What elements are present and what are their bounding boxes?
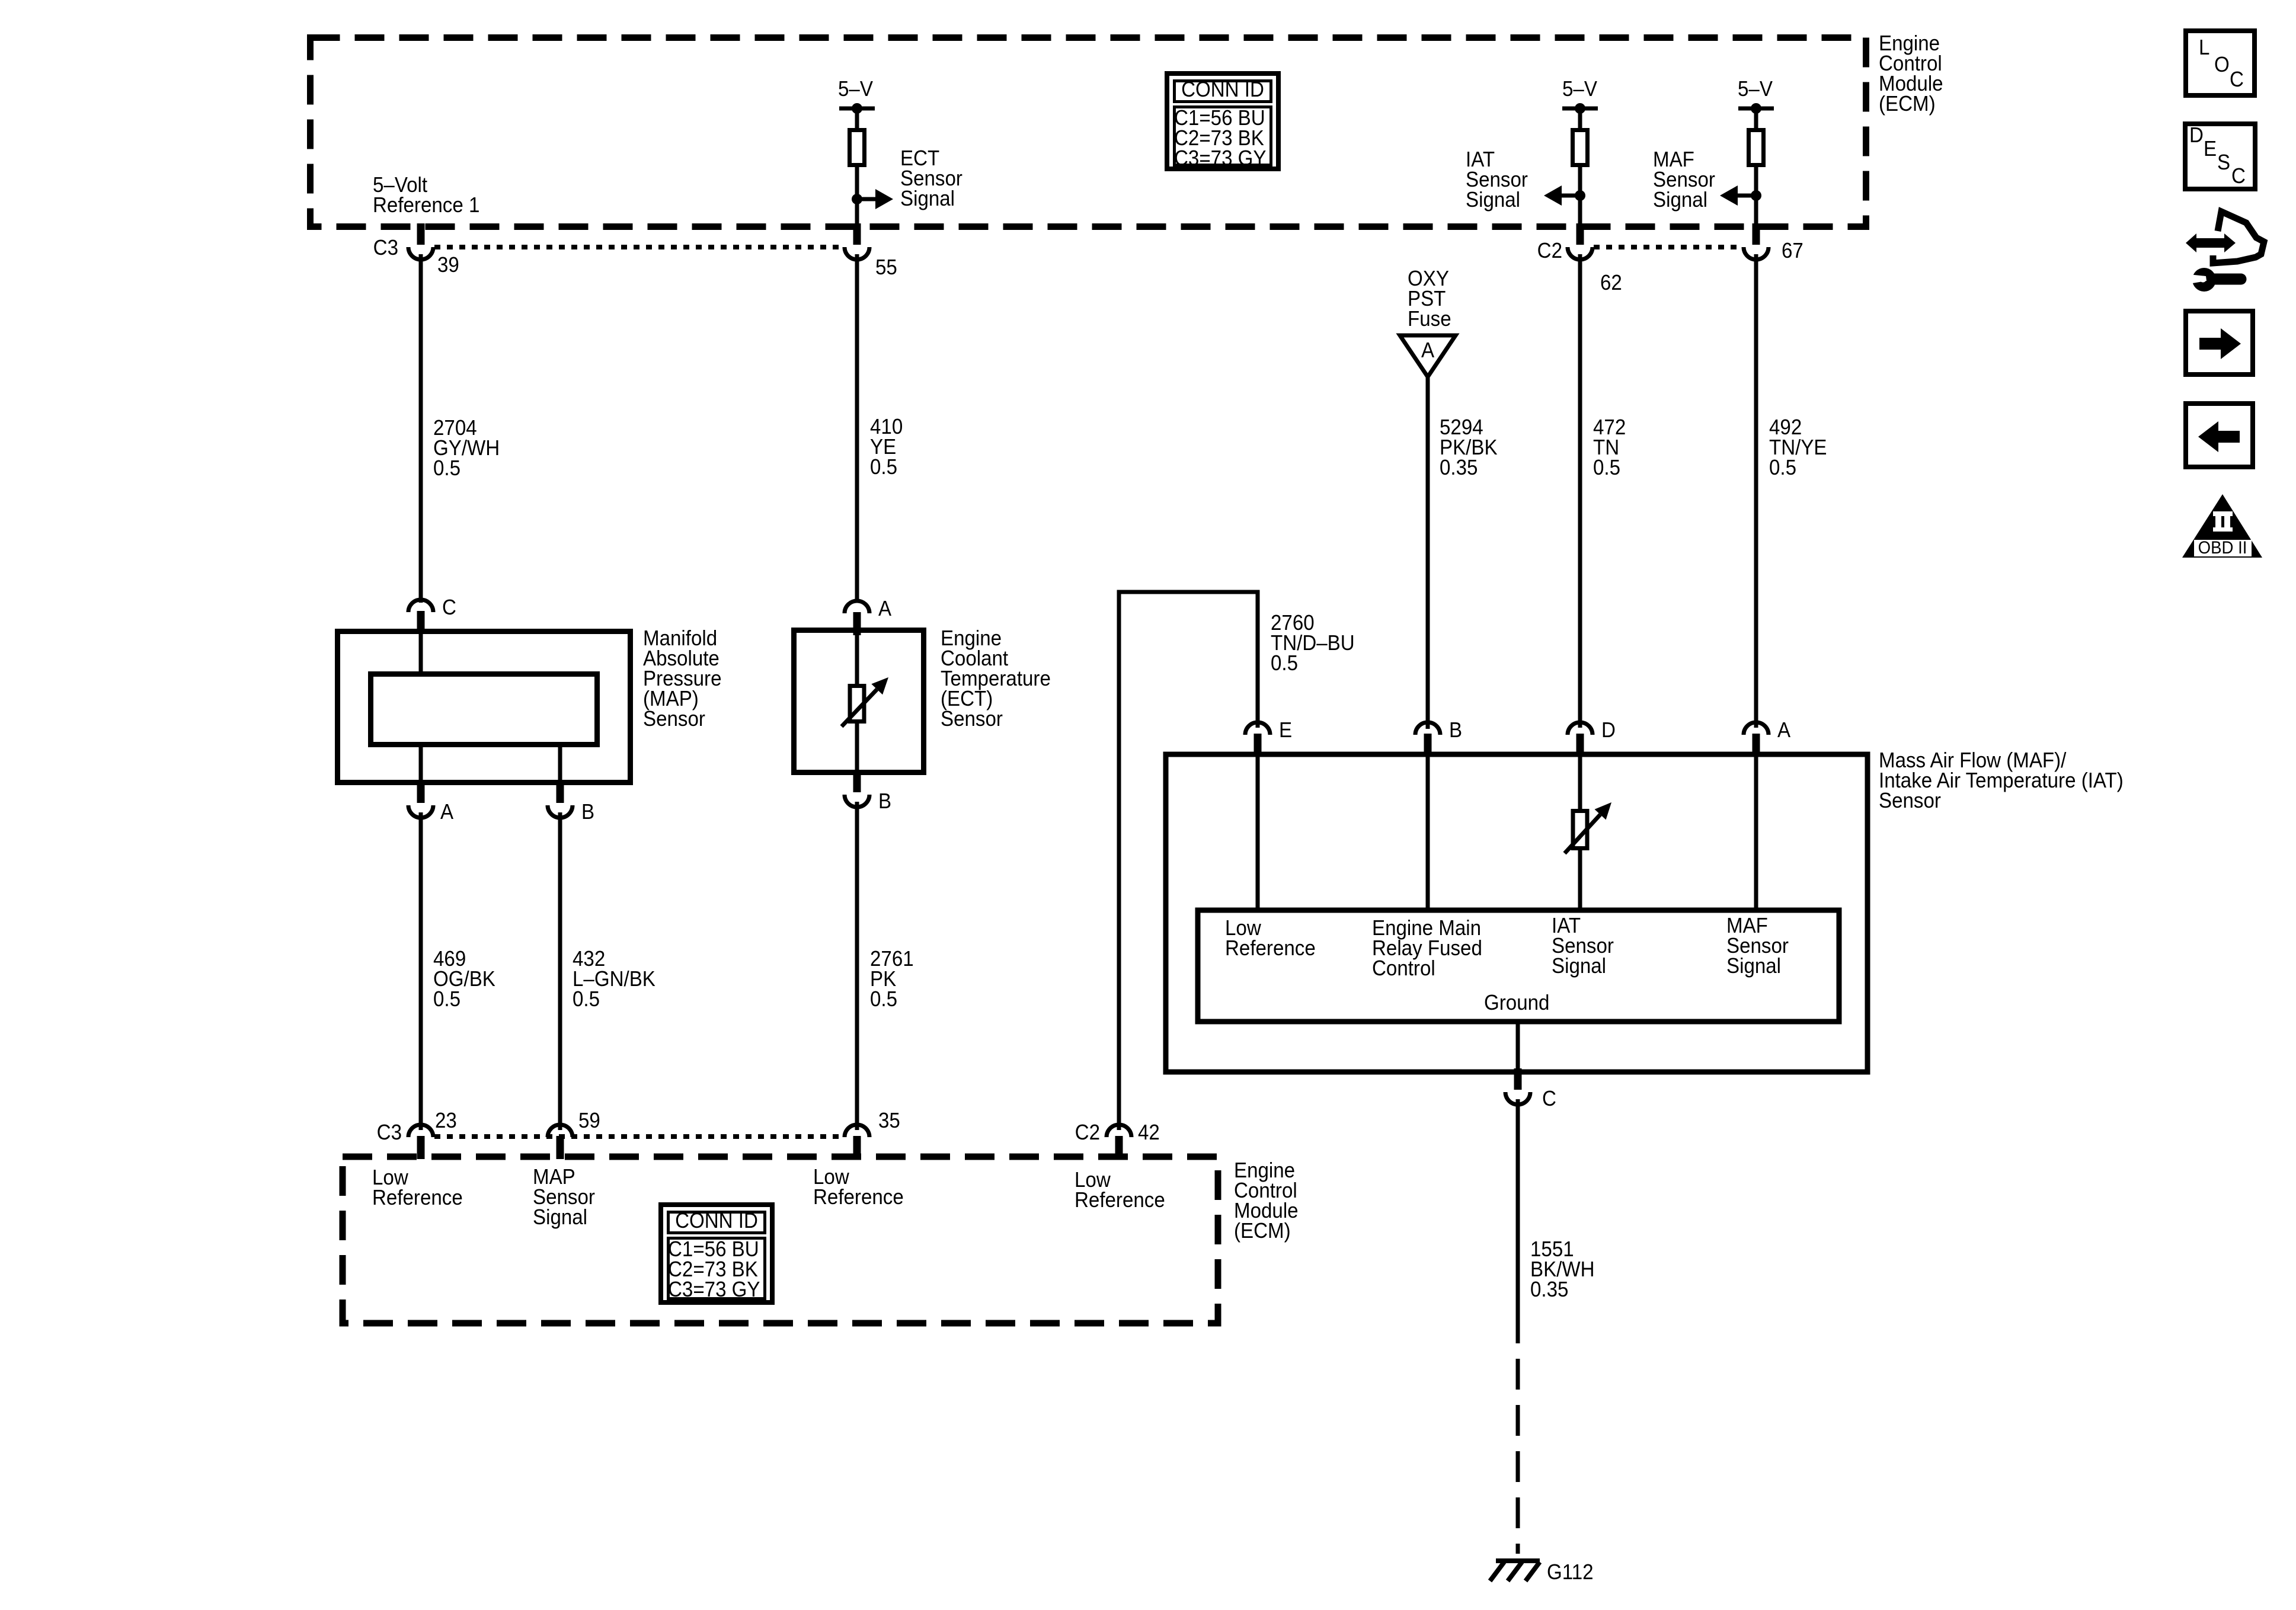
svg-text:Signal: Signal bbox=[1466, 188, 1520, 212]
icon diagnostic (arrow and wrench) bbox=[2186, 212, 2264, 292]
connector pin A (MAF/IAT) bbox=[1744, 719, 1790, 757]
svg-text:5–V: 5–V bbox=[1738, 78, 1773, 101]
svg-text:Control: Control bbox=[1372, 957, 1435, 981]
label Low Reference (pin 23) bbox=[372, 1166, 463, 1210]
connector pin B (MAP sensor) bbox=[548, 782, 594, 824]
label Low Reference (pin 42) bbox=[1075, 1169, 1165, 1212]
thermistor IAT (variable resistor) bbox=[1565, 802, 1611, 853]
CONN ID table (bottom) bbox=[661, 1205, 772, 1302]
wire ECT inside bottom bbox=[855, 722, 859, 775]
svg-text:E: E bbox=[1279, 719, 1292, 742]
svg-text:42: 42 bbox=[1138, 1121, 1160, 1145]
label wire 1551 BK/WH 0.35 bbox=[1530, 1238, 1595, 1302]
svg-text:A: A bbox=[878, 597, 891, 621]
label wire 472 TN 0.5 bbox=[1593, 416, 1626, 480]
label Engine Control Module (ECM) bottom bbox=[1234, 1159, 1299, 1243]
connector pin C (MAP sensor) bbox=[408, 596, 456, 634]
svg-text:A: A bbox=[1421, 339, 1434, 363]
wire B inside MAF box bbox=[1426, 757, 1430, 910]
label wire 5294 PK/BK 0.35 bbox=[1440, 416, 1498, 480]
wire resistor to ECM edge (ECT) bbox=[855, 165, 859, 227]
label Low Reference (MAF box) bbox=[1225, 917, 1316, 961]
svg-text:55: 55 bbox=[875, 256, 897, 280]
svg-text:C3: C3 bbox=[377, 1121, 402, 1145]
svg-text:Ground: Ground bbox=[1484, 991, 1549, 1015]
IAT sensor signal arrow bbox=[1544, 185, 1585, 206]
svg-text:39: 39 bbox=[437, 254, 459, 277]
label wire 2760 TN/D-BU 0.5 bbox=[1271, 612, 1355, 676]
wire 2704 GY/WH bbox=[419, 254, 423, 603]
wire 2761 PK bbox=[855, 802, 859, 1130]
label OXY PST Fuse bbox=[1408, 267, 1451, 331]
resistor MAF pull-up bbox=[1749, 130, 1764, 165]
svg-text:Sensor: Sensor bbox=[1879, 789, 1941, 813]
svg-text:C3: C3 bbox=[373, 236, 398, 260]
svg-text:(ECM): (ECM) bbox=[1234, 1219, 1291, 1243]
svg-text:CONN ID: CONN ID bbox=[1181, 78, 1264, 102]
MAF sensor signal arrow bbox=[1720, 185, 1761, 206]
svg-text:0.5: 0.5 bbox=[433, 988, 461, 1012]
svg-text:L: L bbox=[2199, 36, 2209, 60]
label Mass Air Flow (MAF)/Intake Air Temperature (IAT) Sensor bbox=[1879, 749, 2124, 813]
svg-text:0.5: 0.5 bbox=[870, 456, 897, 479]
resistor ECT pull-up bbox=[850, 130, 865, 165]
svg-text:0.5: 0.5 bbox=[870, 988, 897, 1012]
svg-text:C: C bbox=[2230, 68, 2244, 92]
connector pin A (MAP sensor) bbox=[408, 782, 453, 824]
label wire 469 OG/BK 0.5 bbox=[433, 948, 495, 1012]
ECT sensor signal arrow bbox=[852, 189, 893, 209]
connector pin B (MAF/IAT) bbox=[1415, 719, 1462, 757]
wire MAP C inside bbox=[419, 629, 423, 674]
fuse OXY PST (triangle A) bbox=[1400, 335, 1456, 377]
connector pin C (MAF/IAT ground) bbox=[1505, 1068, 1556, 1110]
svg-text:0.5: 0.5 bbox=[1769, 456, 1796, 480]
wire 5V to resistor (ECT) bbox=[855, 108, 859, 130]
label Engine Coolant Temperature (ECT) Sensor bbox=[941, 627, 1051, 731]
svg-text:0.5: 0.5 bbox=[1593, 456, 1620, 480]
5-V supply (MAF) bbox=[1738, 78, 1774, 114]
wire 432 L-GN/BK bbox=[558, 812, 562, 1130]
svg-text:Signal: Signal bbox=[1726, 955, 1781, 978]
connector pin 42 (C2) bbox=[1107, 1125, 1131, 1159]
wire 1551 BK/WH solid part bbox=[1516, 1099, 1520, 1343]
svg-text:E: E bbox=[2204, 137, 2217, 161]
label wire 432 L-GN/BK 0.5 bbox=[573, 948, 655, 1012]
label wire 492 TN/YE 0.5 bbox=[1769, 416, 1827, 480]
connector pin D (MAF/IAT) bbox=[1568, 719, 1616, 757]
icon back arrow box bbox=[2186, 404, 2253, 467]
svg-text:Signal: Signal bbox=[1552, 955, 1606, 978]
ECT sensor box bbox=[794, 630, 924, 773]
svg-text:C2: C2 bbox=[1537, 239, 1562, 263]
icon DESC box bbox=[2185, 124, 2255, 189]
svg-text:(ECM): (ECM) bbox=[1879, 92, 1936, 116]
svg-text:C: C bbox=[2231, 165, 2246, 188]
wire 410 YE bbox=[855, 254, 859, 603]
label wire 2761 PK 0.5 bbox=[870, 948, 914, 1012]
5-V supply (ECT) bbox=[838, 78, 875, 114]
svg-text:B: B bbox=[878, 790, 891, 814]
svg-text:0.5: 0.5 bbox=[433, 457, 461, 481]
connector pin 35 bbox=[845, 1125, 869, 1159]
connector pin 59 bbox=[548, 1125, 573, 1159]
svg-text:G112: G112 bbox=[1547, 1561, 1594, 1585]
svg-text:0.35: 0.35 bbox=[1530, 1278, 1568, 1302]
connector pin E (MAF/IAT) bbox=[1245, 719, 1292, 757]
label 5-Volt Reference 1 bbox=[373, 174, 479, 217]
wire 492 TN/YE bbox=[1754, 254, 1758, 728]
svg-text:Reference 1: Reference 1 bbox=[373, 194, 479, 217]
wire A inside MAF box bbox=[1754, 757, 1758, 910]
svg-text:Signal: Signal bbox=[1653, 188, 1707, 212]
wire E inside MAF box bbox=[1256, 757, 1260, 910]
wire resistor to ECM edge (IAT) bbox=[1578, 165, 1582, 227]
svg-text:35: 35 bbox=[878, 1109, 900, 1133]
svg-text:Sensor: Sensor bbox=[941, 708, 1003, 731]
label Low Reference (pin 35) bbox=[813, 1166, 904, 1209]
label Manifold Absolute Pressure (MAP) Sensor bbox=[643, 627, 721, 731]
wire D inside MAF box upper bbox=[1578, 757, 1582, 811]
label MAF Sensor Signal bbox=[1653, 148, 1715, 212]
wire 472 TN bbox=[1578, 254, 1582, 728]
svg-text:Signal: Signal bbox=[900, 187, 955, 211]
label Engine Control Module (ECM) top bbox=[1879, 32, 1943, 116]
wire MAP B inside bbox=[558, 745, 562, 785]
connector pin 39 (C3) bbox=[408, 223, 433, 260]
svg-text:0.35: 0.35 bbox=[1440, 456, 1478, 480]
svg-text:Signal: Signal bbox=[533, 1206, 587, 1230]
label wire 410 YE 0.5 bbox=[870, 415, 903, 479]
connector pin 55 bbox=[845, 223, 869, 260]
CONN ID table (top) bbox=[1167, 73, 1278, 170]
label wire 2704 GY/WH 0.5 bbox=[433, 417, 500, 481]
svg-text:0.5: 0.5 bbox=[573, 988, 600, 1012]
svg-text:A: A bbox=[440, 801, 453, 824]
dotted connector line (23 to 59 to 35) bbox=[434, 1134, 843, 1139]
svg-text:Reference: Reference bbox=[372, 1186, 463, 1210]
MAP sensor inner element bbox=[371, 674, 597, 745]
MAP sensor box bbox=[338, 632, 631, 783]
svg-text:B: B bbox=[1449, 719, 1462, 742]
svg-text:C3=73 GY: C3=73 GY bbox=[1174, 147, 1267, 171]
svg-text:CONN ID: CONN ID bbox=[675, 1209, 758, 1233]
label IAT Sensor Signal bbox=[1466, 148, 1528, 212]
wire 2760 TN/D-BU (L path) bbox=[1119, 592, 1258, 1130]
MAF/IAT sensor box bbox=[1166, 754, 1868, 1072]
svg-text:67: 67 bbox=[1782, 239, 1803, 263]
wire MAP A inside bbox=[419, 745, 423, 785]
label Engine Main Relay Fused Control bbox=[1372, 917, 1482, 981]
svg-text:Fuse: Fuse bbox=[1408, 308, 1451, 331]
wire D inside MAF box lower bbox=[1578, 849, 1582, 910]
svg-text:Sensor: Sensor bbox=[643, 708, 705, 731]
svg-text:OBD II: OBD II bbox=[2198, 538, 2247, 558]
wire Ground to box edge bbox=[1516, 1022, 1520, 1074]
svg-text:C2: C2 bbox=[1075, 1121, 1100, 1145]
svg-text:C: C bbox=[442, 596, 456, 620]
icon LOC box bbox=[2186, 31, 2255, 95]
svg-text:B: B bbox=[581, 801, 594, 824]
icon forward arrow box bbox=[2186, 311, 2253, 375]
svg-text:23: 23 bbox=[435, 1109, 457, 1133]
svg-text:5–V: 5–V bbox=[838, 78, 873, 101]
label IAT Sensor Signal (MAF box) bbox=[1552, 914, 1614, 978]
svg-text:59: 59 bbox=[578, 1109, 600, 1133]
connector pin B (ECT sensor) bbox=[845, 771, 891, 813]
connector pin 62 (C2) bbox=[1568, 223, 1593, 260]
connector pin 23 (C3) bbox=[408, 1125, 433, 1159]
svg-text:Reference: Reference bbox=[813, 1186, 904, 1209]
ECM module dashed box (top) bbox=[311, 38, 1866, 227]
svg-text:0.5: 0.5 bbox=[1271, 652, 1298, 676]
icon OBD II triangle bbox=[2182, 494, 2262, 558]
label MAF Sensor Signal (MAF box) bbox=[1726, 914, 1789, 978]
label ECT Sensor Signal bbox=[900, 147, 962, 211]
wire 1551 dashed part bbox=[1516, 1359, 1520, 1554]
wire ECT inside top bbox=[855, 628, 859, 686]
MAF/IAT sensor inner box bbox=[1198, 910, 1839, 1022]
resistor IAT pull-up bbox=[1573, 130, 1588, 165]
connector pin A (ECT sensor) bbox=[845, 597, 891, 635]
ECM module dashed box (bottom) bbox=[343, 1157, 1218, 1323]
svg-text:C: C bbox=[1542, 1087, 1556, 1111]
svg-text:62: 62 bbox=[1600, 271, 1622, 295]
connector pin 67 bbox=[1744, 223, 1769, 260]
wire 5V to resistor (MAF) bbox=[1754, 108, 1758, 130]
svg-text:A: A bbox=[1777, 719, 1790, 742]
svg-text:D: D bbox=[1601, 719, 1616, 742]
svg-text:5–V: 5–V bbox=[1562, 78, 1597, 101]
svg-text:C3=73 GY: C3=73 GY bbox=[668, 1278, 760, 1302]
wire 5V to resistor (IAT) bbox=[1578, 108, 1582, 130]
wire 5294 PK/BK bbox=[1426, 377, 1430, 729]
thermistor ECT (variable resistor) bbox=[842, 677, 888, 726]
svg-text:S: S bbox=[2217, 151, 2230, 175]
label MAP Sensor Signal (pin 59) bbox=[533, 1166, 595, 1230]
svg-text:Reference: Reference bbox=[1225, 937, 1316, 961]
svg-text:O: O bbox=[2214, 53, 2230, 77]
svg-text:Reference: Reference bbox=[1075, 1189, 1165, 1212]
wire 469 OG/BK bbox=[419, 812, 423, 1130]
svg-text:D: D bbox=[2189, 124, 2204, 148]
wire resistor to ECM edge (MAF) bbox=[1754, 165, 1758, 227]
dotted connector line C3 (39 to 55) bbox=[434, 245, 843, 249]
5-V supply (IAT) bbox=[1562, 78, 1598, 114]
dotted connector line C2 (62 to 67) bbox=[1594, 245, 1742, 249]
ground G112 bbox=[1490, 1561, 1594, 1585]
